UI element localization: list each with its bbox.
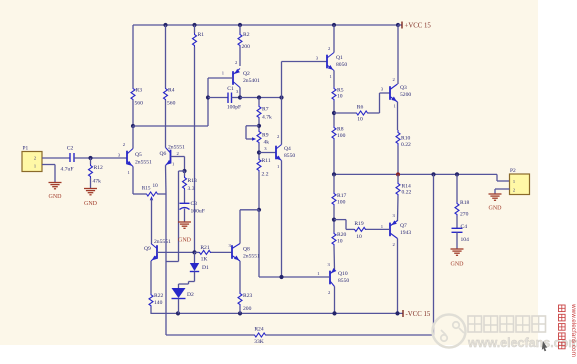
watermark cursor arrow — [542, 341, 547, 351]
svg-text:R19: R19 — [354, 221, 364, 227]
svg-text:10: 10 — [337, 94, 343, 100]
wire R6 to Q3 base — [368, 93, 390, 113]
wire Q1 emitter to R5 — [333, 71, 335, 88]
connector P2 — [510, 168, 530, 195]
svg-text:Q8: Q8 — [243, 247, 250, 253]
diode D2 — [172, 288, 195, 299]
svg-text:33K: 33K — [254, 339, 264, 345]
resistor R5 — [332, 87, 344, 101]
wire bottom -VCC rail — [151, 312, 403, 314]
resistor R11 — [257, 158, 271, 178]
svg-text:R23: R23 — [243, 293, 253, 299]
node junction VAS node / Q4 emitter / Q1 base column — [279, 95, 283, 99]
svg-text:P1: P1 — [23, 146, 29, 152]
wire C1 right lead to Q2 collector — [232, 97, 241, 99]
svg-text:R4: R4 — [168, 88, 175, 94]
svg-text:8550: 8550 — [338, 278, 349, 284]
wire R3 to Q5 collector node — [132, 100, 134, 126]
resistor R19 — [354, 221, 366, 240]
transistor Q6 2n5551 — [160, 145, 185, 167]
svg-text:270: 270 — [460, 212, 469, 218]
wire Q5 emitter to R15 — [133, 167, 146, 195]
connector P1 — [22, 146, 42, 172]
svg-text:Q3: Q3 — [400, 85, 407, 91]
wire R14 to Q7 emitter — [397, 196, 400, 221]
svg-text:+VCC 15: +VCC 15 — [405, 23, 432, 30]
resistor R21 — [195, 245, 233, 263]
transistor Q10 8550 — [317, 262, 349, 295]
svg-text:R2: R2 — [243, 32, 250, 38]
svg-text:4k: 4k — [264, 140, 270, 146]
svg-text:R22: R22 — [154, 293, 164, 299]
svg-text:C3: C3 — [191, 201, 198, 207]
wire R12 lead top — [90, 158, 92, 164]
wire D2 lead — [178, 284, 180, 288]
wire R11 down to Q8 collector node — [258, 172, 260, 210]
wire Q1 base — [282, 61, 328, 63]
wire R20 to Q10 emitter — [333, 246, 336, 270]
wire Q9 base to R21 node — [157, 251, 195, 253]
wire R22 to bottom rail — [150, 307, 152, 314]
wire R2 to Q2 emitter — [239, 47, 241, 66]
trimmer R9 4k — [246, 126, 269, 146]
node junction output rail / R8-R17 — [332, 172, 336, 176]
node junction R7 / R9 bypass — [257, 124, 261, 128]
node junction Q10 base / Q4 collector — [279, 275, 283, 279]
svg-text:P2: P2 — [510, 168, 516, 174]
wire top +VCC rail — [133, 24, 398, 26]
svg-text:100pF: 100pF — [227, 105, 241, 111]
svg-text:R8: R8 — [337, 127, 344, 133]
svg-text:C4: C4 — [461, 224, 468, 230]
svg-text:GND: GND — [451, 262, 465, 268]
capacitor C2 4.7uF — [61, 146, 74, 173]
wire Q8 emitter to R23 — [239, 261, 241, 292]
wire Q10 collector to bottom rail — [334, 287, 336, 314]
svg-text:8050: 8050 — [336, 62, 347, 68]
wire R15 right lead — [158, 193, 166, 195]
svg-text:R13: R13 — [188, 178, 198, 184]
svg-text:140: 140 — [154, 300, 163, 306]
wire P2 pin2 to ground — [495, 189, 510, 194]
node junction top rail / R2 — [238, 23, 242, 27]
wire R11 node down to Q10 base wire — [258, 210, 260, 277]
wire Q1 collector to top rail — [333, 25, 335, 53]
svg-text:2n5551: 2n5551 — [168, 145, 185, 151]
svg-text:GND: GND — [178, 238, 192, 244]
svg-text:GND: GND — [84, 201, 98, 207]
svg-text:R24: R24 — [254, 327, 264, 333]
svg-text:D1: D1 — [202, 265, 209, 271]
resistor R1 — [193, 25, 205, 47]
wire C4 to ground — [456, 232, 458, 248]
resistor R17 — [332, 174, 347, 206]
resistor R2 — [238, 25, 250, 50]
node junction x208 / C1 left plate wire — [206, 95, 210, 99]
wire R8 down to output rail — [333, 140, 335, 174]
svg-text:1943: 1943 — [400, 230, 411, 236]
node junction bottom rail / Q10 — [332, 311, 336, 315]
transistor Q8 2n5551 — [229, 243, 260, 261]
svg-text:R15: R15 — [142, 186, 151, 192]
wire D1 to D2 jog — [179, 272, 195, 285]
svg-text:C2: C2 — [67, 146, 74, 152]
wire Q2 base to x208 column — [208, 77, 233, 79]
node junction R5 / R6 / R8 — [332, 111, 336, 115]
wire Q1 base column down to VAS node — [281, 62, 283, 98]
resistor R13 — [183, 171, 198, 192]
svg-text:R9: R9 — [262, 133, 269, 139]
node junction bottom rail / R23 — [238, 311, 242, 315]
svg-text:2n5551: 2n5551 — [243, 254, 260, 260]
resistor R3 — [131, 88, 143, 107]
resistor R12 — [89, 164, 104, 185]
wire R6 left lead — [334, 112, 356, 114]
node junction Q6 base / R13 / feedback — [182, 169, 186, 173]
svg-text:100: 100 — [337, 133, 346, 139]
resistor R22 — [149, 293, 164, 307]
svg-text:D2: D2 — [187, 292, 194, 298]
svg-text:2n5401: 2n5401 — [243, 78, 260, 84]
node junction top rail / R1 — [192, 23, 196, 27]
ground R12 — [84, 189, 98, 208]
wire R13 to C3 — [184, 190, 186, 203]
wire R1 down to Q9 base node — [194, 47, 196, 252]
svg-text:R3: R3 — [136, 88, 143, 94]
node junction VAS node / R7 — [257, 95, 261, 99]
resistor R24 — [254, 327, 266, 346]
node junction R3 / Q5 collector / wire to C1 — [131, 124, 135, 128]
wire Q3 emitter to R10 — [397, 102, 400, 130]
svg-text:www.elecfans.com: www.elecfans.com — [570, 303, 577, 357]
resistor R6 — [356, 105, 368, 123]
node junction output rail / R18 — [455, 172, 459, 176]
node junction top rail / R4 — [163, 23, 167, 27]
wire Q5 collector up — [132, 126, 134, 149]
node junction output rail / feedback column — [431, 172, 435, 176]
wire D1 lead — [194, 252, 196, 263]
wire Q4 emitter up to VAS node — [281, 98, 283, 145]
wire C1 left lead — [208, 97, 228, 99]
svg-text:GND: GND — [49, 194, 63, 200]
transistor Q2 2n5401 — [222, 60, 260, 94]
resistor R4 — [164, 88, 176, 107]
svg-text:1: 1 — [513, 179, 515, 184]
node junction output rail / R10-R14 (red) — [396, 172, 400, 176]
wire feedback line left — [166, 334, 254, 336]
svg-text:200: 200 — [242, 44, 251, 50]
wire feedback node left branch down — [179, 171, 185, 252]
svg-text:2.2: 2.2 — [262, 172, 269, 178]
svg-text:R11: R11 — [262, 158, 271, 164]
wire Q4 base — [259, 152, 276, 154]
wire P1 pin1 to ground — [42, 165, 55, 183]
svg-text:R18: R18 — [460, 200, 470, 206]
svg-text:10: 10 — [357, 117, 363, 123]
svg-text:560: 560 — [135, 101, 144, 107]
svg-text:C1: C1 — [227, 86, 234, 92]
wire top rail to R4 — [165, 25, 167, 88]
ground C3 — [178, 222, 192, 244]
wire R23 to bottom rail — [239, 306, 241, 313]
wire +VCC column to Q3 collector — [397, 25, 399, 84]
svg-text:R21: R21 — [200, 245, 210, 251]
resistor R15 trimmer — [142, 183, 158, 244]
svg-text:5200: 5200 — [400, 92, 411, 98]
resistor R10 — [396, 130, 411, 148]
svg-text:Q1: Q1 — [336, 55, 343, 61]
wire C3 to ground — [184, 209, 186, 222]
svg-text:560: 560 — [167, 101, 176, 107]
wire R9 to Q4 base node — [258, 144, 260, 158]
ground P1 — [49, 183, 63, 201]
wire C2 to Q5 base — [74, 157, 127, 159]
watermark red hanzi column — [559, 305, 566, 349]
svg-text:2: 2 — [34, 156, 36, 161]
svg-text:1: 1 — [34, 164, 36, 169]
wire Q6 emitter down — [165, 166, 168, 195]
resistor R20 — [332, 232, 347, 246]
svg-text:10: 10 — [356, 234, 362, 240]
ground P2 — [489, 194, 503, 212]
svg-text:1K: 1K — [201, 257, 208, 263]
svg-text:2n5551: 2n5551 — [154, 239, 171, 245]
node junction bottom rail / Q7 — [395, 311, 399, 315]
svg-text:R12: R12 — [94, 165, 104, 171]
svg-text:Q6: Q6 — [160, 151, 167, 157]
diode D1 — [190, 263, 209, 272]
svg-text:2n5551: 2n5551 — [135, 160, 152, 166]
watermark red url vertical — [570, 303, 577, 357]
wire R4 to Q6 collector — [165, 100, 167, 148]
watermark embossed url — [467, 336, 577, 350]
node junction top rail / Q1 collector — [332, 23, 336, 27]
svg-text:R6: R6 — [357, 105, 364, 111]
svg-text:0.22: 0.22 — [401, 142, 411, 148]
node junction bottom rail / D2 — [176, 311, 180, 315]
wire R17 to R19/R20 node — [333, 206, 335, 232]
svg-text:R17: R17 — [337, 193, 347, 199]
wire output rail — [334, 173, 497, 175]
svg-text:R10: R10 — [401, 136, 411, 142]
wire Q6 base jog to feedback node — [171, 157, 185, 172]
watermark embossed logo circle — [433, 315, 466, 348]
wire Q4 collector down to Q10 base — [281, 161, 283, 278]
wire left rail to R3 — [132, 25, 134, 88]
svg-text:104: 104 — [461, 237, 470, 243]
svg-text:100: 100 — [337, 200, 346, 206]
svg-text:Q4: Q4 — [284, 146, 291, 152]
wire Q2 collector down — [239, 88, 241, 98]
wire VAS node to Q4 emitter column — [240, 97, 282, 99]
svg-text:www.elecfans.com: www.elecfans.com — [467, 336, 577, 350]
transistor Q3 5200 — [381, 77, 412, 109]
resistor R8 — [332, 126, 346, 140]
transistor Q4 8550 — [264, 134, 295, 169]
wire jog to Q8 collector — [240, 210, 259, 244]
wire jog base wire to feedback column — [166, 252, 179, 261]
svg-text:47k: 47k — [93, 179, 102, 185]
node junction input / R12 — [88, 156, 92, 160]
capacitor C4 104 — [452, 224, 470, 243]
svg-text:200: 200 — [243, 306, 252, 312]
node junction R11 / Q8 collector jog — [257, 208, 261, 212]
wire R10 to output rail — [397, 146, 399, 174]
wire R12 to ground — [90, 178, 92, 188]
wire R19 lead jog — [334, 220, 354, 230]
svg-text:-VCC 15: -VCC 15 — [406, 311, 431, 318]
svg-text:10: 10 — [337, 239, 343, 245]
capacitor C3 100uF — [180, 201, 205, 215]
node junction R21 / D1 / Q9 base / R1 — [192, 250, 196, 254]
svg-text:Q5: Q5 — [135, 152, 142, 158]
wire R7 to R9 — [258, 119, 260, 130]
capacitor C1 100pF — [227, 86, 241, 111]
svg-text:GND: GND — [489, 206, 503, 212]
power -VCC 15 symbol — [403, 310, 431, 318]
wire Q10 base — [259, 276, 330, 278]
svg-text:R20: R20 — [337, 232, 347, 238]
svg-text:2: 2 — [513, 188, 515, 193]
wire P1 pin2 to C2 — [42, 157, 70, 159]
wire D2 to bottom rail — [178, 299, 180, 314]
svg-text:Q7: Q7 — [400, 223, 407, 229]
node junction R17 / R19 / R20 — [332, 218, 336, 222]
watermark embossed caption — [468, 316, 546, 332]
power +VCC 15 symbol — [398, 22, 431, 30]
transistor Q7 1943 — [381, 213, 412, 247]
svg-text:R1: R1 — [198, 32, 205, 38]
node junction R9 / Q4 base / R11 — [257, 150, 261, 154]
svg-text:Q9: Q9 — [144, 246, 151, 252]
wire R5 to R6/R8 node — [333, 101, 335, 126]
wire output rail jog to P2 pin 1 — [497, 174, 510, 181]
resistor R18 — [455, 174, 470, 217]
svg-text:8550: 8550 — [284, 153, 295, 159]
wire Q7 collector to bottom rail — [397, 239, 399, 314]
svg-text:3.3: 3.3 — [188, 186, 195, 192]
svg-text:10: 10 — [153, 183, 159, 189]
svg-text:Q2: Q2 — [243, 71, 250, 77]
wire Q9 emitter to R22 — [150, 261, 152, 294]
wire feedback line right — [266, 174, 434, 335]
transistor Q5 2n5551 — [118, 142, 152, 175]
wire feedback column Q6 emitter to bottom — [165, 194, 167, 335]
resistor R14 — [396, 174, 411, 196]
ground C4 — [451, 249, 465, 268]
node junction top rail / +VCC — [396, 23, 400, 27]
wire R19 to Q7 base — [366, 228, 390, 230]
node junction Q2 collector / C1 right — [238, 95, 242, 99]
wire x208 column (Q2 base / C1 left) — [207, 78, 209, 126]
svg-text:100uF: 100uF — [191, 209, 205, 215]
svg-text:0.22: 0.22 — [402, 190, 412, 196]
wire Q5-collector node to x208 column — [133, 125, 208, 127]
transistor Q9 2n5551 — [144, 239, 171, 261]
resistor R23 — [238, 292, 253, 312]
svg-text:Q10: Q10 — [338, 271, 348, 277]
svg-text:4.7k: 4.7k — [262, 115, 272, 121]
resistor R7 — [257, 98, 272, 121]
transistor Q1 8050 — [316, 46, 348, 79]
wire R18 to C4 — [456, 216, 458, 228]
svg-text:R7: R7 — [262, 107, 269, 113]
svg-text:4.7uF: 4.7uF — [61, 167, 74, 173]
